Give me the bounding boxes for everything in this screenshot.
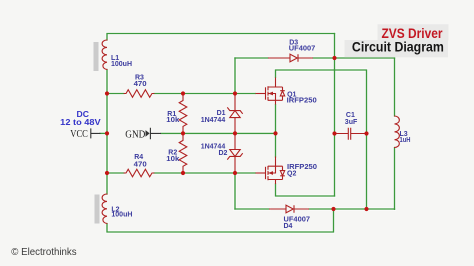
wire D3 anode lead	[235, 57, 268, 59]
wire L1 top riser and top rail	[107, 34, 335, 41]
svg-text:Q2: Q2	[287, 171, 296, 178]
wire tank B vertical	[334, 34, 336, 197]
wire D3 riser	[234, 58, 236, 94]
svg-text:© Electrothinks: © Electrothinks	[11, 247, 76, 258]
wire L1 bottom lead	[106, 70, 108, 94]
svg-text:D1: D1	[217, 110, 226, 117]
node VCC port	[105, 131, 109, 135]
mosfet Q2	[256, 157, 285, 185]
svg-text:100uH: 100uH	[111, 211, 132, 218]
wire L3 top lead	[394, 58, 396, 116]
svg-text:Circuit Diagram: Circuit Diagram	[352, 40, 444, 55]
wire D4 riser	[234, 173, 236, 209]
wire gate1 line	[107, 93, 256, 95]
svg-text:3uF: 3uF	[345, 119, 358, 126]
node gate2 D2/D4	[233, 171, 237, 175]
node C1 right	[364, 131, 368, 135]
node VCC-L1-R3	[105, 91, 109, 95]
inductor L2	[102, 194, 107, 224]
svg-text:IRFP250: IRFP250	[287, 98, 317, 105]
VCC port	[91, 128, 101, 138]
zener D2	[227, 133, 242, 173]
wire L2 top lead	[106, 173, 108, 194]
wire D4 line	[235, 208, 395, 210]
node tankA on D4 line	[364, 207, 368, 211]
svg-text:UF4007: UF4007	[289, 46, 316, 53]
wire D3 cathode to L3 top	[313, 57, 395, 59]
svg-text:10k: 10k	[166, 156, 179, 163]
wire Q2 drain run	[276, 184, 335, 196]
mosfet Q1	[256, 78, 285, 105]
svg-text:12 to 48V: 12 to 48V	[60, 117, 101, 127]
inductor L3	[395, 116, 400, 148]
svg-text:R4: R4	[134, 154, 143, 161]
svg-text:100uH: 100uH	[111, 61, 132, 68]
wire VCC rail	[106, 94, 108, 174]
wire GND line	[161, 132, 276, 134]
svg-text:D4: D4	[284, 223, 293, 230]
inductor L1	[102, 40, 107, 70]
svg-text:GND: GND	[125, 129, 145, 140]
diode D4	[269, 205, 309, 213]
wire Q2 source lead	[275, 133, 277, 157]
resistor R3	[124, 90, 154, 98]
wire L3 bottom lead	[394, 148, 396, 210]
svg-text:1N4744: 1N4744	[201, 117, 226, 124]
GND port	[150, 128, 161, 139]
label DC supply	[60, 109, 101, 127]
resistor R4	[124, 169, 154, 177]
node gate2 R2	[181, 171, 185, 175]
node C1 left	[332, 131, 336, 135]
svg-text:10k: 10k	[166, 117, 179, 124]
core bar L2	[95, 195, 100, 224]
node GND sources	[273, 131, 277, 135]
svg-text:VCC: VCC	[70, 129, 88, 140]
node VCC-L2-R4	[105, 171, 109, 175]
zener D1	[227, 94, 242, 134]
resistor R1	[179, 94, 187, 134]
svg-text:D2: D2	[219, 150, 228, 157]
wire L2 bottom lead and bottom rail	[107, 209, 334, 232]
capacitor C1	[335, 128, 367, 140]
node L2 riser on D4 line	[331, 207, 335, 211]
core bar L1	[94, 42, 99, 71]
svg-text:470: 470	[134, 161, 147, 168]
node GND D1/D2	[233, 131, 237, 135]
title box 2	[345, 40, 449, 57]
svg-text:1uH: 1uH	[400, 137, 411, 144]
wire Q1 source lead	[275, 105, 277, 134]
diode D3	[268, 54, 313, 62]
wire gate2 line	[107, 172, 256, 174]
resistor R2	[179, 133, 187, 173]
wire VCC stub	[100, 132, 107, 134]
node GND R1/R2	[181, 131, 185, 135]
svg-text:470: 470	[134, 81, 147, 88]
node gate1 D1/D3	[233, 91, 237, 95]
wire Q1 drain line	[276, 70, 367, 209]
node gate1 R1	[181, 91, 185, 95]
title box 1	[378, 24, 449, 40]
node D3 cathode	[332, 56, 336, 60]
